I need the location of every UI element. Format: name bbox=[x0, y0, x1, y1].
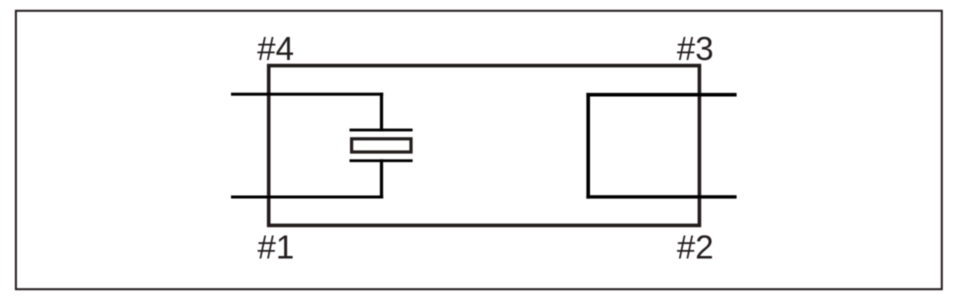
wire: lower-left rail bbox=[231, 196, 383, 199]
wire: upper-left rail bbox=[231, 93, 383, 96]
svg-text:#2: #2 bbox=[677, 229, 714, 266]
svg-text:#4: #4 bbox=[257, 30, 294, 67]
crystal Y1 bottom plate bbox=[350, 159, 413, 162]
svg-text:#3: #3 bbox=[677, 30, 714, 67]
crystal Y1 body bbox=[352, 139, 411, 152]
wire: crystal bottom lead bbox=[380, 159, 383, 198]
wire: lower-right rail bbox=[586, 195, 736, 198]
wire: crystal top lead bbox=[380, 93, 383, 132]
wire: right loop left edge bbox=[586, 93, 590, 199]
crystal package outline bbox=[269, 66, 700, 226]
wire: upper-right rail bbox=[586, 93, 736, 97]
crystal Y1 top plate bbox=[350, 129, 413, 132]
svg-text:#1: #1 bbox=[258, 229, 295, 266]
